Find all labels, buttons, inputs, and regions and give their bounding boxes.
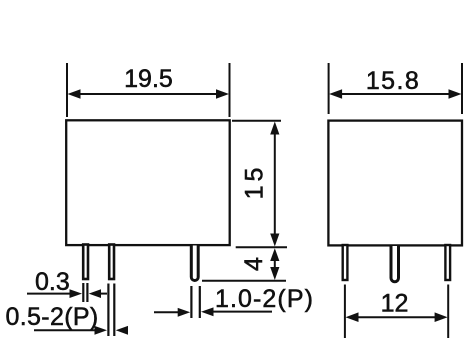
dimension 1.0-2(P) right arrow — [201, 307, 214, 316]
relay body side view — [328, 121, 462, 246]
extension line at pin bottom level for 4 — [202, 280, 286, 282]
svg-text:1.0-2(P): 1.0-2(P) — [215, 285, 314, 313]
dimension 0.5-2(P) arrows — [95, 326, 129, 335]
extension line right of 15.8 — [461, 63, 463, 114]
pin C extension line for 12 — [447, 285, 449, 339]
pin 3 front view (rounded bottom) — [191, 246, 198, 281]
svg-text:15: 15 — [240, 164, 268, 200]
extension line top of 15 — [232, 120, 281, 122]
pin 1 extension lines for 0.3 — [83, 283, 87, 302]
svg-text:4: 4 — [240, 257, 268, 271]
svg-text:0.3: 0.3 — [35, 268, 70, 296]
svg-text:0.5-2(P): 0.5-2(P) — [6, 303, 99, 331]
pin 1 front view — [83, 245, 88, 280]
label 0.3 with underline leader — [27, 268, 71, 296]
svg-text:15.8: 15.8 — [366, 67, 420, 95]
dimension 4 double arrow — [270, 248, 279, 280]
extension line right of 19.5 — [229, 63, 231, 117]
pin 2 extension lines for 0.5-2(P) — [108, 284, 114, 337]
relay body front view — [66, 120, 230, 245]
pin C side view — [445, 245, 450, 280]
pin 2 front view — [109, 245, 114, 280]
dimension 1.0-2(P) left leader arrow — [154, 308, 190, 317]
dimension 12 double arrow — [346, 312, 448, 322]
label 1.0-2(P) with underline — [212, 285, 314, 313]
dimension 19.5 double arrow — [68, 89, 230, 99]
pin B side view (rounded bottom) — [391, 246, 399, 282]
extension line left of 15.8 — [328, 63, 330, 114]
label 0.5-2(P) with underline leader — [6, 303, 99, 331]
svg-text:19.5: 19.5 — [124, 65, 173, 93]
dimension 15 double arrow — [270, 122, 279, 247]
pin A side view — [343, 245, 348, 280]
extension line left of 19.5 — [66, 63, 68, 117]
dimension 0.3 arrows — [70, 289, 108, 298]
dimension 15.8 double arrow — [329, 89, 461, 99]
extension line bottom of 15 / top of 4 — [236, 246, 287, 248]
svg-text:12: 12 — [381, 290, 409, 318]
pin 3 extension lines for 1.0-2(P) — [191, 286, 199, 318]
pin A extension line for 12 — [344, 285, 346, 339]
